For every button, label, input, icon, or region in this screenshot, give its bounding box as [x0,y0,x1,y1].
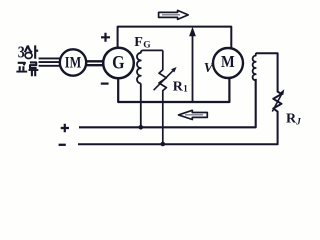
svg-text:3: 3 [18,44,25,62]
rheostat R1 arrow [154,71,173,90]
power flow arrow top (right) [159,10,189,19]
wire G- down, bottom armature rail, up to M [118,78,229,102]
hangul 교 (ㅛ bar) [16,71,27,73]
svg-text:G: G [112,51,125,73]
wire FG bottom to + rail [140,83,142,126]
wire G+ up, top rail, down to M [118,27,232,49]
svg-text:R: R [173,80,184,95]
hangul 교 (ㅛ ticks) [20,66,24,71]
polarity - at dc rail [59,144,66,146]
hangul 상 (ㅇ) [25,53,32,59]
junction dot R1/-rail [161,142,166,147]
junction dot FG/+rail [139,125,144,130]
motor M [213,48,243,78]
svg-text:1: 1 [183,84,188,94]
svg-text:G: G [143,40,151,50]
dc + rail with riser to motor field coil [79,79,256,127]
induction motor IM [60,49,86,75]
polarity - at G bottom [101,82,109,84]
voltmeter arrow V [192,30,194,103]
svg-text:J: J [295,116,301,126]
polarity + at G top [101,33,110,42]
svg-text:V: V [204,61,215,76]
dc - rail with riser, RJ zigzag, top wire to coil [78,53,282,144]
hangul 상 (ㅅ) [25,46,32,53]
svg-text:F: F [134,35,143,50]
wire 3-phase input lines [39,58,61,65]
hangul 상 (ㅏ) [35,45,38,58]
generator field coil FG with top wire [137,50,163,83]
hangul 류 (ㅠ bar) [29,69,39,71]
svg-text:M: M [221,53,235,71]
polarity + at dc rail [61,124,69,132]
hangul 류 (ㄹ) [30,62,37,68]
rheostat R1 (zigzag) [159,50,166,143]
svg-text:IM: IM [65,54,82,72]
hangul 류 (ㅠ legs) [32,70,35,76]
shaft coupling IM-G [86,61,105,65]
motor field coil [253,53,256,80]
field rheostat RJ arrow [272,93,282,112]
label 3-phase AC "3상 교류" [18,44,25,62]
hangul 교 (ㄱ) [18,63,25,66]
power flow arrow bottom (left) [179,110,208,119]
generator G [103,48,134,79]
